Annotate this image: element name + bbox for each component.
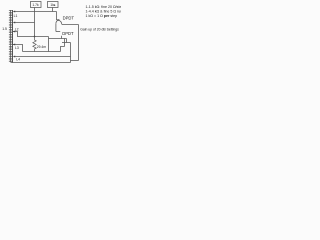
- arrow W2: [13, 22, 15, 24]
- wire W1 stub to switch S1: [57, 19, 60, 21]
- arrow W1: [13, 11, 15, 13]
- svg-text:1.7k: 1.7k: [32, 3, 39, 7]
- svg-text:DPDT: DPDT: [63, 15, 75, 20]
- wiper arrows: [13, 11, 59, 58]
- node junction dot: [34, 36, 36, 38]
- wire corner link: [71, 60, 79, 62]
- svg-text:DPDT: DPDT: [62, 31, 74, 36]
- wiper W4 wire: [13, 45, 23, 52]
- wire right long vertical: [78, 25, 80, 61]
- wiper W3 wire: [13, 32, 49, 37]
- svg-text:1.5: 1.5: [2, 27, 7, 31]
- wiper W5 wire: [15, 56, 71, 58]
- arrow W5: [13, 56, 15, 58]
- wiper W1 wire: [15, 11, 57, 13]
- switch S2 right step: [66, 39, 68, 43]
- slide-wire resistor bar right rail: [12, 10, 14, 63]
- svg-text:1-1.5 kΩ: fine 20 Ω/step: 1-1.5 kΩ: fine 20 Ω/step: [86, 5, 122, 9]
- slide-wire resistor bar left rail: [10, 10, 12, 63]
- arrow W3: [13, 31, 15, 33]
- switch S1 throw wire: [62, 24, 79, 26]
- resistor box R1: [31, 2, 42, 8]
- wiper W2 wire: [15, 22, 35, 24]
- svg-text:1k▸: 1k▸: [50, 3, 55, 7]
- box R1 stub down to node: [34, 8, 36, 37]
- svg-text:1-4.4 kΩ & fine 5 Ω rung: 1-4.4 kΩ & fine 5 Ω rung: [86, 9, 122, 13]
- labels: [2, 3, 74, 62]
- switch S2 cross horizontal: [62, 42, 71, 44]
- note text block: [86, 5, 125, 18]
- wire bottom: [11, 62, 71, 64]
- svg-text:L1: L1: [14, 14, 18, 18]
- wire right mid vertical: [70, 43, 72, 63]
- resistor box R2: [48, 2, 59, 8]
- svg-text:L2: L2: [15, 27, 19, 31]
- switch S2 top wire: [49, 38, 67, 40]
- switch S2 lower step: [61, 47, 65, 52]
- box R2 stub: [52, 8, 54, 12]
- wire S1 to S2 vertical: [55, 23, 57, 31]
- resistor Rm zigzag: [33, 37, 36, 52]
- switch S1 blade B: [56, 20, 58, 23]
- svg-text:29.4m: 29.4m: [37, 45, 46, 49]
- switch S1 contact dot: [58, 19, 60, 21]
- bottom resistor wire: [23, 51, 61, 53]
- wire S1 to S2 horizontal: [56, 31, 60, 33]
- arrow W4: [13, 44, 15, 46]
- svg-text:Gain up of 20 dB Settings: Gain up of 20 dB Settings: [80, 27, 119, 31]
- wire W1 drop: [56, 12, 58, 21]
- switch S2 cross vertical: [64, 39, 66, 47]
- svg-text:L3: L3: [15, 46, 19, 50]
- bar hatch ticks: [9, 11, 13, 62]
- svg-text:1 kΩ = 1 Ω per step: 1 kΩ = 1 Ω per step: [86, 14, 118, 18]
- wire W3 vertical: [48, 37, 50, 52]
- switch S2 pole stub: [61, 36, 63, 39]
- svg-text:L4: L4: [16, 57, 20, 61]
- switch S1 blade A: [58, 20, 62, 25]
